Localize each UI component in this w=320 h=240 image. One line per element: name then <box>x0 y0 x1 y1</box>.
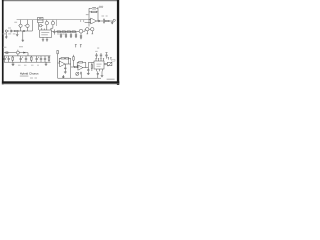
ground under J1 <box>5 32 8 38</box>
pin stub trimmer <box>110 58 111 60</box>
transistor Q3 <box>39 24 43 27</box>
resistor R18 feedback <box>65 58 68 59</box>
resistor R5 <box>62 31 65 32</box>
resistor R2 to ground <box>16 32 19 36</box>
transistor Q8 <box>45 20 48 30</box>
wire LFO bottom rail <box>58 77 101 79</box>
border frame right <box>117 0 119 85</box>
clock tick <box>81 20 84 22</box>
junction node <box>98 20 100 22</box>
resistor R15 <box>71 66 80 67</box>
note text <box>35 77 38 80</box>
border frame top <box>2 0 118 2</box>
wire <box>109 20 113 22</box>
capacitor C19 to ground <box>64 64 67 74</box>
capacitor C2 <box>23 30 26 32</box>
wire <box>88 62 94 64</box>
ground power rail right <box>45 62 48 65</box>
ground at output <box>111 21 114 24</box>
resistor R7 <box>72 31 75 32</box>
ground power rail <box>12 62 15 65</box>
wire <box>18 30 32 32</box>
transistor Q5 <box>86 28 89 34</box>
value label text <box>106 15 108 18</box>
capacitor C16 <box>25 56 27 62</box>
wire <box>11 30 14 32</box>
wire clock rail <box>17 19 91 21</box>
pin stub trimmer <box>108 58 109 60</box>
wire 9V input <box>4 52 16 54</box>
pin stub U6 top <box>103 59 104 61</box>
wire U3 output <box>97 20 104 22</box>
capacitor C1 <box>10 30 12 33</box>
plus mark <box>38 57 39 58</box>
wire filter rail <box>56 31 80 33</box>
capacitor C19 <box>44 56 46 62</box>
pin stub U6 top <box>95 59 96 61</box>
capacitor C8 to ground <box>75 32 77 38</box>
label text <box>8 27 11 30</box>
U6 label text <box>97 65 101 68</box>
junction node LFO rail <box>62 75 64 78</box>
node dot <box>101 6 103 8</box>
wire feedback loop U4 <box>59 58 61 62</box>
capacitor C13 <box>4 56 6 62</box>
capacitor C18 <box>40 56 42 62</box>
resistor R14 <box>73 55 74 67</box>
resistor R11 <box>12 56 14 62</box>
U2 label text <box>41 31 49 34</box>
wire stub A <box>75 45 77 48</box>
pin stub U6 top <box>100 59 101 61</box>
value label text <box>57 33 60 36</box>
capacitor C10 feedback <box>92 8 96 9</box>
potentiometer VR1 <box>76 72 79 75</box>
capacitor C20 <box>81 72 82 78</box>
capacitor C5 to ground <box>60 32 62 38</box>
wire U4 output <box>65 63 71 65</box>
plus mark <box>6 57 7 58</box>
capacitor C7 to ground <box>70 32 72 38</box>
pin stub U2 bottom with ground <box>46 37 48 41</box>
value label text <box>13 33 16 36</box>
value label text <box>8 33 11 36</box>
value label text <box>3 33 7 36</box>
label text <box>19 45 23 48</box>
wire <box>37 23 39 30</box>
label text <box>97 47 99 50</box>
capacitor C22 under U6 <box>97 71 99 78</box>
zener D2 <box>23 52 25 53</box>
label text <box>86 13 89 16</box>
input jack J1 <box>5 30 7 32</box>
capacitor C23 electrolytic <box>95 53 97 59</box>
pin stub U2 bottom with ground <box>42 37 44 41</box>
value label text <box>14 21 17 24</box>
transistor Q9 <box>51 20 55 30</box>
BBD delay IC U2 <box>40 30 52 37</box>
op-amp U5 <box>78 65 83 70</box>
svg-text:Hybrid Chorus: Hybrid Chorus <box>20 71 39 75</box>
transistor Q4 <box>79 29 85 33</box>
transistor Q1 <box>18 20 22 31</box>
plus mark <box>22 57 23 58</box>
wire clock drop <box>56 20 58 26</box>
value label text <box>24 64 27 67</box>
wire <box>83 62 86 67</box>
U2 label text <box>41 33 48 36</box>
capacitor C21 <box>87 70 90 75</box>
wire feedback loop U5 <box>77 62 78 66</box>
pin stub U6 bottom <box>102 69 104 71</box>
wire ground rail <box>4 61 51 63</box>
resistor R8 feedback <box>91 11 96 12</box>
capacitor C17 <box>36 56 38 62</box>
pin stub U2 top <box>41 28 43 30</box>
output jack J2 <box>113 19 115 21</box>
diode D1 <box>6 52 8 53</box>
wire stub B <box>80 45 82 48</box>
ground under C2 <box>22 31 25 42</box>
resistor R1 <box>15 30 18 31</box>
op-amp U4 <box>60 61 65 67</box>
pin stub U6 bottom <box>96 69 98 71</box>
U6 label text <box>97 63 102 66</box>
note text <box>30 77 33 80</box>
capacitor C6 to ground <box>65 32 67 38</box>
capacitor C14 <box>8 56 10 62</box>
capacitor C9 under Q4 <box>80 33 82 39</box>
value label text <box>18 64 21 67</box>
label box <box>112 59 115 61</box>
transistor Q7 <box>16 50 28 56</box>
label text <box>3 46 6 49</box>
clock driver IC U6 <box>94 61 104 69</box>
node dot <box>99 6 101 8</box>
op-amp U3 <box>91 18 97 24</box>
resistor R9 <box>106 20 109 21</box>
pin stub U6 bottom <box>99 69 101 71</box>
wire up to U3 <box>85 8 91 26</box>
border frame bottom <box>2 81 119 83</box>
wire U5 output <box>83 63 88 70</box>
resistor R12 <box>57 50 60 78</box>
value label text <box>37 64 39 67</box>
wire <box>96 7 98 21</box>
subtitle text <box>20 75 29 78</box>
capacitor C24 electrolytic <box>100 53 102 59</box>
resistor R13 <box>48 56 50 62</box>
border frame left <box>2 0 4 85</box>
resistor R13 feedback <box>61 58 65 59</box>
resistor R6 <box>67 31 70 32</box>
value label text <box>31 64 34 67</box>
wire <box>7 30 9 32</box>
feedback network box B1 <box>38 17 43 22</box>
transistor Q2 <box>24 20 29 31</box>
date text bottom right <box>107 79 115 80</box>
value label text <box>62 33 64 36</box>
pin stub U2 top <box>43 29 45 31</box>
wire <box>65 58 71 78</box>
resistor R16 feedback <box>79 62 83 63</box>
transistor Q6 <box>89 28 94 34</box>
resistor R12 <box>31 56 33 62</box>
ground bottom right <box>101 71 104 77</box>
wire feedback leg <box>31 20 33 31</box>
wire feedback loop U3 <box>89 8 92 12</box>
label text <box>95 50 97 53</box>
capacitor C4 right of U2 <box>52 30 56 35</box>
resistor R4 <box>57 31 60 32</box>
trimmer VR2 <box>104 62 112 66</box>
capacitor C11 <box>103 19 106 24</box>
resistor R17 <box>91 63 92 72</box>
wire V+ rail <box>4 55 51 57</box>
capacitor C15 <box>20 56 22 62</box>
capacitor C25 electrolytic <box>105 53 107 59</box>
value label text <box>102 15 105 18</box>
pin stub U6 top <box>98 59 99 61</box>
